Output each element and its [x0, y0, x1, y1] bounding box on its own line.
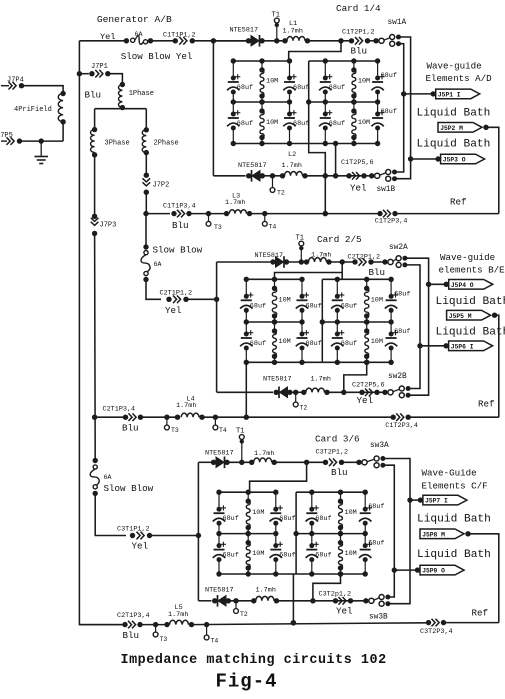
test point T1 (card 1)	[274, 38, 279, 43]
svg-text:Blu: Blu	[123, 630, 140, 641]
wire (card 2 feed vertical)	[216, 262, 218, 392]
svg-text:Liquid Bath: Liquid Bath	[417, 108, 491, 120]
wire (card 1 feed vertical)	[212, 41, 214, 176]
capacitor 68uf	[301, 322, 303, 334]
svg-text:sw1A: sw1A	[388, 19, 407, 27]
capacitor 68uf	[232, 102, 234, 114]
svg-text:Ref: Ref	[472, 608, 489, 619]
switch sw1A	[373, 38, 378, 43]
wire (phase rail)	[95, 108, 147, 110]
wire	[186, 298, 217, 300]
svg-text:1.7mh: 1.7mh	[168, 611, 188, 619]
wire	[368, 40, 379, 42]
wire (feed step into box)	[250, 462, 307, 492]
svg-text:10M: 10M	[266, 119, 278, 127]
svg-text:1.7mh: 1.7mh	[311, 252, 331, 260]
capacitor 68uf	[245, 279, 247, 296]
fuse 6A slow blow (card 2 feed)	[143, 244, 148, 249]
connector J7P1	[77, 71, 82, 76]
svg-text:Blu: Blu	[172, 220, 189, 231]
svg-text:68uf: 68uf	[329, 84, 345, 92]
svg-text:1.7mh: 1.7mh	[176, 402, 196, 410]
wire	[143, 211, 148, 216]
svg-text:Card 3/6: Card 3/6	[315, 434, 360, 445]
svg-text:Slow Blow Yel: Slow Blow Yel	[121, 51, 193, 62]
connector flag J5P5 M	[447, 310, 491, 320]
node (card 3 box feed junction)	[304, 460, 309, 465]
wire (M flag to Ref riser)	[486, 127, 499, 213]
capacitor 68uf	[336, 279, 338, 296]
svg-text:68uf: 68uf	[315, 552, 331, 560]
switch sw2A	[382, 259, 387, 264]
wire (card 2 top line)	[217, 261, 273, 263]
svg-text:Liquid Bath: Liquid Bath	[436, 296, 505, 308]
wire (card 2 box to Ref drop)	[245, 362, 247, 417]
svg-text:10M: 10M	[345, 550, 357, 558]
svg-text:Elements C/F: Elements C/F	[422, 481, 488, 492]
wire (sw1 bus far)	[395, 37, 411, 179]
resistor 10M	[340, 492, 342, 501]
svg-text:68uf: 68uf	[237, 120, 253, 128]
svg-text:Card 2/5: Card 2/5	[317, 234, 362, 245]
resistor 10M	[353, 102, 355, 111]
svg-text:10M: 10M	[371, 338, 383, 346]
svg-text:J5P4 O: J5P4 O	[451, 282, 474, 289]
capacitor 68uf	[289, 61, 291, 78]
wire (card 1 top line)	[213, 40, 248, 42]
svg-text:4PriField: 4PriField	[14, 106, 52, 114]
svg-text:68uf: 68uf	[381, 72, 397, 80]
wire	[189, 213, 227, 215]
svg-text:L2: L2	[288, 151, 296, 159]
node (card 2 box feed junction)	[340, 259, 345, 264]
svg-text:68uf: 68uf	[293, 120, 309, 128]
svg-text:J5P9 O: J5P9 O	[422, 568, 445, 575]
svg-text:NTE5817: NTE5817	[205, 450, 234, 458]
svg-text:6A: 6A	[154, 261, 162, 268]
wire (card 1 Yel line)	[213, 175, 245, 177]
svg-text:sw2A: sw2A	[389, 244, 408, 252]
svg-text:J5P6 I: J5P6 I	[451, 343, 474, 350]
wire (box bottom rail)	[309, 143, 378, 145]
svg-text:Generator A/B: Generator A/B	[97, 14, 172, 25]
svg-text:68uf: 68uf	[223, 552, 239, 560]
wire (M flag to Ref riser)	[468, 534, 499, 623]
connector flag J5P9 O	[392, 567, 397, 572]
svg-text:Blu: Blu	[122, 423, 139, 434]
resistor 10M	[247, 534, 249, 543]
wire (Ref to right riser)	[408, 416, 499, 418]
wire	[263, 175, 282, 177]
svg-text:T3: T3	[214, 224, 222, 231]
svg-text:NTE5817: NTE5817	[230, 26, 259, 34]
svg-text:C2T1P3,4: C2T1P3,4	[117, 612, 150, 620]
wire	[151, 40, 175, 42]
wire	[290, 391, 303, 393]
svg-text:68uf: 68uf	[223, 515, 239, 523]
svg-text:Yel: Yel	[350, 183, 367, 194]
resistor 10M	[274, 322, 276, 331]
wire (box top rail)	[322, 278, 391, 280]
svg-text:68uf: 68uf	[381, 108, 397, 116]
inductor 1Phase	[120, 82, 125, 87]
wire (box mid rail)	[322, 321, 391, 323]
inductor 3Phase	[92, 127, 97, 132]
wire	[150, 535, 199, 537]
svg-text:10M: 10M	[345, 509, 357, 517]
wire	[95, 493, 126, 535]
test point T3	[164, 415, 169, 420]
test point T3	[206, 211, 211, 216]
svg-text:68uf: 68uf	[394, 290, 410, 298]
svg-text:10M: 10M	[252, 509, 264, 517]
wire	[94, 109, 96, 130]
wire	[140, 624, 167, 626]
svg-text:Wave-Guide: Wave-Guide	[422, 468, 477, 479]
svg-text:C2T1P1,2: C2T1P1,2	[160, 290, 193, 298]
wire (box left edge)	[308, 61, 310, 144]
wire	[327, 391, 388, 393]
capacitor 68uf	[377, 61, 379, 78]
svg-text:10M: 10M	[252, 550, 264, 558]
wire (sw3 bus near)	[383, 465, 394, 597]
svg-text:J5P1 I: J5P1 I	[438, 92, 461, 99]
fuse 6A slow blow	[124, 38, 129, 43]
wire	[287, 261, 306, 263]
svg-text:Elements A/D: Elements A/D	[426, 73, 493, 84]
svg-text:10M: 10M	[279, 297, 291, 305]
wire (card 2 box to Yel drop)	[344, 362, 367, 392]
wire (box mid rail)	[246, 321, 302, 323]
svg-text:J7P5: J7P5	[0, 132, 13, 140]
svg-text:68uf: 68uf	[394, 328, 410, 336]
svg-text:sw3B: sw3B	[369, 614, 388, 622]
svg-text:T2: T2	[300, 405, 308, 412]
svg-text:sw3A: sw3A	[370, 442, 389, 450]
inductor L 1.7mh (card 1 top)	[282, 38, 287, 43]
svg-text:J7P4: J7P4	[7, 77, 24, 85]
wire (card 3 box to Yel drop)	[313, 574, 341, 601]
svg-text:Ref: Ref	[450, 197, 467, 208]
inductor L 1.7mh (card 3 top)	[249, 460, 254, 465]
svg-text:C1T1P3,4: C1T1P3,4	[163, 203, 196, 211]
svg-text:Ref: Ref	[478, 399, 495, 410]
svg-text:Liquid Bath: Liquid Bath	[417, 139, 491, 151]
node (card 1 box feed junction)	[338, 38, 343, 43]
svg-text:C3T2P3,4: C3T2P3,4	[420, 628, 453, 636]
svg-text:68uf: 68uf	[293, 84, 309, 92]
wire (box top rail)	[309, 60, 378, 62]
wire	[262, 40, 284, 42]
wire (card 3 box to Ref drop)	[292, 574, 294, 623]
svg-text:68uf: 68uf	[368, 540, 384, 548]
wire (top Yel feed)	[79, 40, 126, 42]
svg-text:68uf: 68uf	[341, 340, 357, 348]
svg-text:1Phase: 1Phase	[129, 90, 154, 98]
wire	[308, 40, 352, 42]
wire (feed step into box)	[289, 41, 341, 61]
resistor 10M	[340, 534, 342, 543]
svg-text:10M: 10M	[358, 78, 370, 86]
capacitor 68uf	[218, 534, 220, 546]
wire (sw1 bus near)	[395, 44, 404, 172]
capacitor 68uf	[390, 279, 392, 296]
svg-text:C1T2P3,4: C1T2P3,4	[385, 422, 418, 430]
wire	[192, 623, 427, 625]
svg-text:C2T2P5,6: C2T2P5,6	[352, 382, 385, 390]
connector flag J5P2 M	[438, 123, 482, 133]
svg-text:J5P8 M: J5P8 M	[422, 531, 445, 538]
svg-text:T1: T1	[236, 428, 244, 436]
wire (card 2 Yel line)	[217, 391, 273, 393]
svg-text:T1: T1	[272, 12, 280, 20]
switch sw1B	[369, 173, 374, 178]
svg-text:6A: 6A	[104, 474, 112, 481]
wire (box mid rail)	[219, 533, 276, 535]
wire (box bottom rail)	[296, 573, 365, 575]
inductor L 1.7mh (card 1 lower)	[280, 173, 285, 178]
wire (box mid rail)	[309, 101, 378, 103]
svg-text:Yel: Yel	[336, 606, 353, 617]
test point T1 (card 2)	[299, 259, 304, 264]
svg-text:68uf: 68uf	[279, 515, 295, 523]
svg-text:Liquid Bath: Liquid Bath	[417, 549, 491, 561]
connector C1T2P3,4	[377, 211, 382, 216]
wire	[274, 461, 325, 463]
capacitor 68uf	[218, 492, 220, 509]
inductor L 1.7mh (card 2 top)	[304, 259, 309, 264]
wire (card 1 lower Blu/Ref line)	[146, 213, 170, 215]
svg-text:10M: 10M	[358, 119, 370, 127]
svg-text:C1T2P1,2: C1T2P1,2	[342, 28, 375, 36]
wire (Ref to right riser)	[444, 622, 499, 624]
connector flag J5P3 O	[408, 156, 413, 161]
switch sw2B	[382, 390, 387, 395]
svg-text:Card 1/4: Card 1/4	[336, 3, 381, 14]
connector C3T2P3,4	[426, 620, 431, 625]
wire	[229, 600, 253, 602]
svg-text:Yel: Yel	[132, 541, 149, 552]
wire (box mid rail)	[296, 533, 365, 535]
wire	[94, 155, 96, 217]
svg-text:1.7mh: 1.7mh	[254, 450, 274, 458]
svg-text:C3T2p1,2: C3T2p1,2	[319, 591, 352, 599]
svg-text:68uf: 68uf	[279, 552, 295, 560]
svg-text:J5P2 M: J5P2 M	[440, 125, 463, 132]
svg-text:10M: 10M	[266, 78, 278, 86]
connector flag J5P8 M	[420, 529, 464, 539]
wire (box mid rail)	[233, 101, 289, 103]
switch sw3A	[356, 460, 361, 465]
connector flag J5P7 I	[407, 497, 412, 502]
resistor 10M	[274, 279, 276, 288]
node (card 1 box drop junction)	[323, 211, 328, 216]
test point T2 (card 3)	[233, 598, 238, 603]
svg-text:J5P3 O: J5P3 O	[443, 157, 466, 164]
wire (left Blu bus)	[79, 41, 126, 625]
svg-text:1.7mh: 1.7mh	[256, 587, 276, 595]
resistor 10M	[366, 279, 368, 288]
svg-text:sw1B: sw1B	[377, 186, 396, 194]
inductor L3 1.7mh	[224, 211, 229, 216]
svg-text:J7P2: J7P2	[153, 182, 170, 190]
svg-text:68uf: 68uf	[306, 302, 322, 310]
svg-text:1.7mh: 1.7mh	[282, 162, 302, 170]
svg-text:1.7mh: 1.7mh	[311, 376, 331, 384]
wire	[108, 74, 123, 83]
inductor 4PriField	[60, 91, 65, 96]
svg-text:2Phase: 2Phase	[154, 140, 179, 148]
wire	[305, 175, 375, 177]
wire	[192, 40, 248, 42]
capacitor 68uf	[275, 534, 277, 546]
wire (box top rail)	[219, 491, 276, 493]
wire (box bottom rail bridge)	[290, 143, 309, 145]
svg-text:NTE5817: NTE5817	[263, 376, 292, 384]
svg-text:Blu: Blu	[85, 90, 102, 101]
wire	[202, 416, 394, 418]
wire (card 3 feed vertical)	[197, 462, 199, 601]
svg-text:10M: 10M	[371, 297, 383, 305]
wire	[371, 261, 388, 263]
wire (box top rail)	[296, 491, 365, 493]
wire	[227, 461, 251, 463]
wire (card 3 lower Blu/Ref line)	[79, 624, 125, 626]
svg-text:Slow Blow: Slow Blow	[153, 245, 203, 256]
svg-text:Blu: Blu	[369, 267, 386, 278]
ground	[39, 138, 44, 143]
node (card 3 box drop junction)	[291, 620, 296, 625]
wire	[250, 213, 383, 215]
wire	[342, 461, 362, 463]
svg-text:68uf: 68uf	[306, 340, 322, 348]
svg-text:J7P3: J7P3	[100, 222, 117, 230]
test point T4	[213, 415, 218, 420]
svg-text:Wave-guide: Wave-guide	[440, 252, 495, 263]
wire (feed step into box)	[275, 262, 343, 279]
svg-text:Blu: Blu	[351, 46, 368, 57]
capacitor 68uf	[311, 534, 313, 546]
connector C1T2P3,4	[391, 415, 396, 420]
capacitor 68uf	[377, 102, 379, 114]
svg-text:1.7mh: 1.7mh	[225, 199, 245, 207]
svg-text:NTE5817: NTE5817	[238, 162, 267, 170]
wire (box top rail)	[246, 278, 302, 280]
svg-text:T4: T4	[269, 224, 277, 231]
svg-text:1.7mh: 1.7mh	[283, 27, 303, 35]
capacitor 68uf	[232, 61, 234, 78]
svg-text:Yel: Yel	[165, 305, 182, 316]
svg-text:3Phase: 3Phase	[105, 140, 130, 148]
wire (box bottom rail bridge)	[276, 573, 296, 575]
svg-text:Yel: Yel	[357, 395, 374, 406]
svg-text:68uf: 68uf	[237, 84, 253, 92]
test point T2 (card 2)	[293, 390, 298, 395]
svg-text:Liquid Bath: Liquid Bath	[436, 327, 505, 339]
inductor L4 1.7mh	[175, 415, 180, 420]
switch sw3B	[363, 598, 368, 603]
inductor 2Phase	[144, 127, 149, 132]
connector flag J5P6 I	[417, 343, 422, 348]
test point T4	[262, 211, 267, 216]
wire	[277, 600, 369, 602]
svg-text:10M: 10M	[279, 338, 291, 346]
svg-text:sw2B: sw2B	[388, 373, 407, 381]
svg-text:J5P7 I: J5P7 I	[425, 498, 448, 505]
resistor 10M	[366, 322, 368, 331]
svg-text:C1T2P3,4: C1T2P3,4	[375, 218, 408, 226]
capacitor 68uf	[245, 322, 247, 334]
wire	[145, 153, 147, 176]
svg-text:68uf: 68uf	[329, 120, 345, 128]
wire (sw2 bus far)	[405, 258, 429, 395]
svg-text:68uf: 68uf	[250, 340, 266, 348]
svg-text:NTE5817: NTE5817	[205, 587, 234, 595]
test point T1 (card 3)	[239, 460, 244, 465]
svg-text:J5P5 M: J5P5 M	[449, 313, 472, 320]
svg-text:Blu: Blu	[331, 467, 348, 478]
svg-text:C2T1P3,4: C2T1P3,4	[103, 406, 136, 414]
svg-text:C1T1P1,2: C1T1P1,2	[163, 32, 196, 40]
wire (box left edge)	[321, 279, 323, 362]
wire	[22, 86, 64, 93]
wire (M flag to Ref riser)	[495, 315, 499, 417]
svg-text:Wave-guide: Wave-guide	[427, 61, 482, 72]
svg-text:Slow Blow: Slow Blow	[104, 483, 154, 494]
svg-text:elements B/E: elements B/E	[439, 265, 505, 276]
connector J7P4	[1, 85, 9, 87]
resistor 10M	[353, 61, 355, 70]
svg-text:Liquid Bath: Liquid Bath	[417, 514, 491, 526]
capacitor 68uf	[364, 492, 366, 509]
svg-text:C3T1P1,2: C3T1P1,2	[117, 526, 150, 534]
wire	[141, 416, 178, 418]
capacitor 68uf	[324, 102, 326, 114]
wire (card 3 Yel line)	[198, 600, 211, 602]
wire (box bottom rail)	[233, 143, 289, 145]
svg-text:T3: T3	[171, 427, 179, 434]
capacitor 68uf	[390, 322, 392, 334]
wire (sw2 bus near)	[405, 265, 420, 389]
wire	[94, 234, 97, 461]
wire (sw3 bus far)	[383, 459, 410, 604]
connector J7P5	[1, 140, 7, 142]
resistor 10M	[261, 102, 263, 111]
capacitor 68uf	[324, 61, 326, 78]
wire	[20, 140, 64, 142]
wire (card 2 lower Blu/Ref line)	[92, 415, 97, 420]
capacitor 68uf	[311, 492, 313, 509]
svg-text:T2: T2	[277, 190, 285, 197]
svg-text:T1: T1	[296, 235, 304, 243]
wire	[62, 122, 64, 141]
connector J7P3	[92, 214, 97, 219]
svg-text:T3: T3	[160, 636, 168, 643]
wire	[329, 261, 355, 263]
capacitor 68uf	[275, 492, 277, 509]
wire (card 3 top line)	[198, 461, 213, 463]
wire (box bottom rail)	[246, 361, 302, 363]
svg-text:T2: T2	[240, 611, 248, 618]
test point T2 (card 1)	[270, 173, 275, 178]
wire (box left edge)	[295, 492, 297, 574]
svg-text:68uf: 68uf	[341, 302, 357, 310]
svg-text:68uf: 68uf	[315, 515, 331, 523]
resistor 10M	[261, 61, 263, 70]
fuse 6A slow blow (card 3 feed)	[93, 458, 98, 463]
capacitor 68uf	[336, 322, 338, 334]
inductor L 1.7mh (card 2 lower)	[301, 390, 306, 395]
